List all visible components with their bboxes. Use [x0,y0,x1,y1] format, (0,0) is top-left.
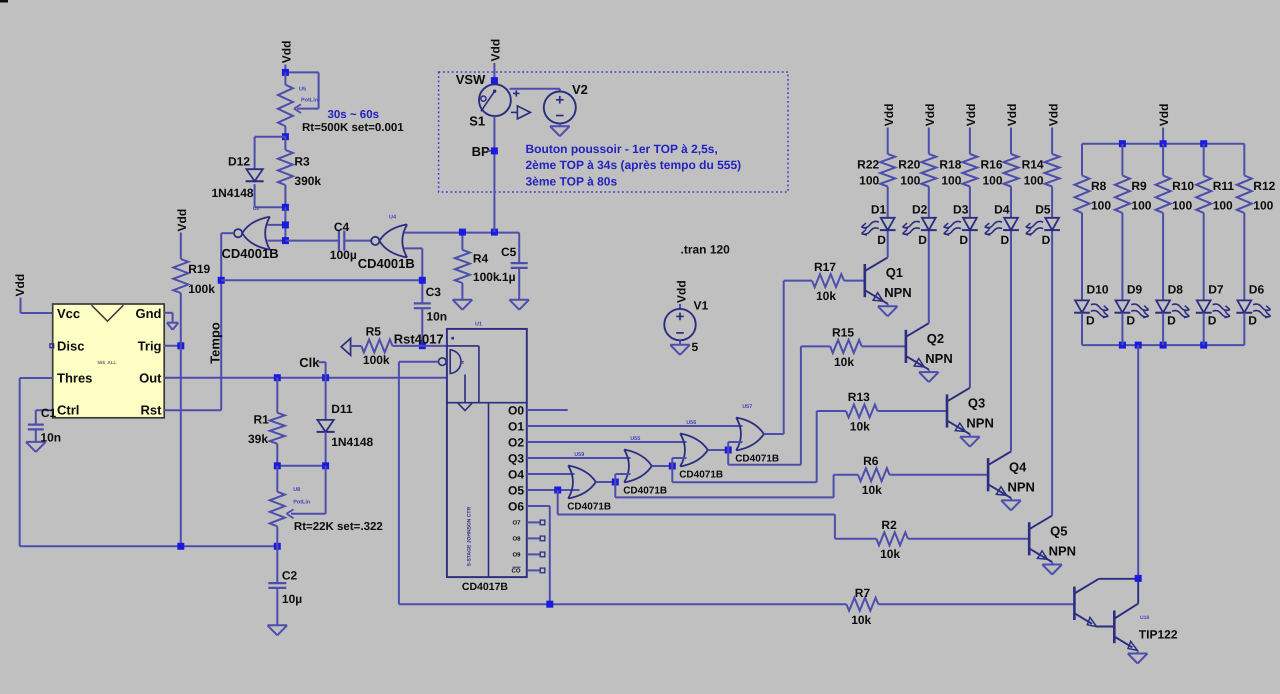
wire (feedback to C3) [221,279,422,281]
node [177,342,184,349]
label D (D2) [918,233,927,247]
wire [1010,187,1012,218]
wire [1121,213,1123,301]
label 555_ALL [98,360,117,365]
svg-text:C4: C4 [334,220,350,234]
label CD4017B [462,581,509,593]
wire (INH to R7 net) [399,362,439,604]
svg-text:C1: C1 [41,406,57,420]
node [177,543,184,550]
ground [550,126,570,136]
label R3 [294,155,310,169]
svg-text:R2: R2 [881,518,897,532]
svg-text:D: D [959,233,968,247]
label 100 (R11) [1213,199,1233,213]
wire (pot wiper) [291,466,326,514]
node [491,77,498,84]
capacitor C1 [28,425,44,430]
wire O4 [527,473,575,475]
unconnected pin Disc [50,344,54,348]
svg-text:Rst: Rst [141,403,163,418]
label NPN (Q3) [966,416,993,431]
wire (Q3 feed) [672,411,846,482]
LED D6 [1236,300,1271,319]
resistor R13 [846,405,878,418]
ground [268,625,288,635]
svg-text:100k: 100k [473,270,500,284]
svg-text:R12: R12 [1253,179,1275,193]
wire [887,187,889,218]
wire [344,240,371,242]
label D (D8) [1167,314,1176,328]
label R1 [254,413,270,427]
svg-text:Vdd: Vdd [923,104,937,127]
LED D7 [1196,300,1231,319]
label CD4001B [222,246,279,261]
label C5 [501,245,517,259]
pin Trig [138,339,162,354]
svg-text:Trig: Trig [138,339,162,354]
svg-text:Clk: Clk [299,355,320,370]
LED D4 [984,218,1019,237]
label R11 [1213,179,1235,193]
label 100k [473,270,500,284]
wire (gate2 input B) [404,248,422,303]
wire [1162,213,1164,301]
wire [1203,144,1205,176]
label U4 [389,215,397,221]
resistor R19 [173,259,188,546]
svg-text:R14: R14 [1022,158,1044,172]
svg-text:R13: R13 [848,390,870,404]
wire [285,240,339,242]
node [669,463,676,470]
wire [679,340,681,345]
label R18 [939,158,961,172]
wire (bank2 bottom rail) [1082,344,1244,346]
svg-text:Q4: Q4 [1009,459,1027,474]
potentiometer U5 (Rt=500K) [278,72,293,136]
label 100 (R10) [1172,199,1192,213]
label D1 [871,202,887,216]
resistor R11 [1196,176,1211,213]
label R4 [473,252,489,266]
resistor R2 [876,532,908,545]
svg-text:R6: R6 [863,454,879,468]
node [1119,342,1126,349]
ground (emitter Q4) [1001,498,1021,511]
svg-text:O7: O7 [512,520,521,527]
svg-text:1N4148: 1N4148 [212,186,254,200]
transistor U18 TIP122 darlington [1074,579,1138,651]
wire (Ctrl) [36,410,53,424]
svg-text:D: D [918,233,927,247]
LED D1 [861,218,896,237]
svg-text:D12: D12 [228,155,250,169]
label D12 [228,155,250,169]
svg-text:O5: O5 [508,484,524,498]
svg-text:1N4148: 1N4148 [331,435,373,449]
svg-text:10k: 10k [816,289,836,303]
wire (Trig) [164,345,181,347]
label D (D9) [1126,314,1135,328]
wire [1081,313,1083,345]
transistor Q4 NPN [988,452,1011,498]
svg-text:Bouton poussoir - 1er TOP à 2,: Bouton poussoir - 1er TOP à 2,5s, [526,142,718,156]
or gate U56 CD4071B [680,434,708,467]
label R9 [1131,179,1147,193]
svg-text:O8: O8 [512,536,521,543]
wire [928,187,930,218]
node [1160,342,1167,349]
svg-text:O0: O0 [508,404,524,418]
wire (Q2 feed) [728,346,830,464]
wire (S1 to BP) [493,116,495,232]
label R6 [863,454,879,468]
svg-text:100: 100 [1172,199,1192,213]
svg-text:CO: CO [512,568,521,575]
label U2 [253,206,260,212]
wire (555 Out / Clk) [164,377,447,379]
svg-text:D9: D9 [1127,283,1143,297]
svg-text:U5: U5 [299,87,306,93]
wire (to U57 in B) [728,442,742,450]
label R20 [898,158,920,172]
voltage source V1 [664,309,695,340]
label 100k [188,282,215,296]
wire [421,308,423,346]
svg-text:100: 100 [982,173,1002,187]
wire (to U55 in B) [615,474,630,482]
label 10k (R15) [834,355,854,369]
wire (Q5 feed) [558,490,877,539]
wire [969,187,971,218]
wire (base Q3) [878,410,948,412]
label NPN (Q4) [1008,479,1035,494]
svg-text:U55: U55 [630,436,640,442]
wire (U56 out) [708,449,728,451]
potentiometer U5 wiper arrow [294,104,301,113]
node (pot top) [282,69,289,76]
svg-text:100: 100 [1253,199,1273,213]
wire [1243,313,1245,345]
wire (bottom rail) [20,545,278,547]
label D5 [1035,202,1051,216]
svg-text:Tempo: Tempo [208,322,223,364]
label 5 [692,340,699,354]
label D3 [953,202,969,216]
svg-text:100: 100 [859,173,879,187]
switch S1 VSW [479,84,530,119]
resistor R12 [1237,176,1252,213]
pin O8 [512,536,544,543]
resistor R7 [399,598,1075,611]
label .1u [499,270,516,284]
svg-text:D8: D8 [1168,283,1184,297]
svg-text:U59: U59 [574,452,584,458]
svg-text:100: 100 [941,173,961,187]
label U1 [475,322,482,328]
Vdd flag (V1) [675,280,689,309]
svg-text:R9: R9 [1131,179,1147,193]
label CD4071B (U57) [735,453,779,464]
label C3 [426,285,442,299]
svg-text:R8: R8 [1091,179,1107,193]
IC U1 CD4017B body [447,329,527,577]
pin label Q3 [508,452,524,466]
svg-text:O9: O9 [512,552,521,559]
svg-text:R5: R5 [366,325,382,339]
svg-text:CD4001B: CD4001B [222,246,279,261]
node [322,374,329,381]
label D11 [331,402,353,416]
label R2 [881,518,897,532]
svg-text:Out: Out [139,371,162,386]
wire (collector Q1) [887,230,889,257]
label U59 [574,452,584,458]
label 100u [330,248,357,262]
wire Q3 [527,457,631,459]
pin Out [139,371,162,386]
svg-text:O1: O1 [508,420,524,434]
Vdd flag (pot U5) [280,41,294,73]
svg-text:NPN: NPN [1008,479,1035,494]
node [546,601,553,608]
LED D5 [1025,218,1060,237]
svg-text:VSW: VSW [456,72,486,87]
node [282,221,289,228]
resistor R4 [455,232,470,296]
svg-text:3ème TOP à 80s: 3ème TOP à 80s [526,175,618,189]
text Rt=500K set=0.001 [302,122,404,134]
nor gate U4 CD4001B [371,224,407,257]
or gate U55 CD4071B [624,450,652,483]
svg-text:Ctrl: Ctrl [57,403,79,418]
ground (TIP122) [1128,652,1148,664]
wire [255,184,286,207]
svg-text:100µ: 100µ [330,248,357,262]
label 100 (R8) [1091,199,1111,213]
label D10 [1087,283,1109,297]
wire O6 [527,506,550,604]
svg-text:R11: R11 [1213,179,1235,193]
resistor R5 [351,339,447,352]
label Q5 [1050,523,1067,538]
transistor Q2 NPN [906,323,929,369]
pin Vcc [57,306,80,321]
svg-text:Thres: Thres [57,371,92,386]
label R15 [832,326,854,340]
label R22 [857,158,879,172]
svg-text:NPN: NPN [1049,543,1076,558]
svg-text:10µ: 10µ [282,592,302,606]
transistor Q1 NPN [865,257,888,303]
svg-text:5: 5 [692,340,699,354]
label 10n [40,430,61,444]
svg-text:.tran 120: .tran 120 [681,243,731,257]
svg-text:R19: R19 [188,262,210,276]
pin Ctrl [57,403,79,418]
svg-text:R10: R10 [1172,179,1194,193]
svg-text:D10: D10 [1087,283,1109,297]
svg-text:10n: 10n [426,309,447,323]
svg-text:.1µ: .1µ [499,270,516,284]
wire (Thres) [20,378,53,546]
svg-text:100: 100 [1213,199,1233,213]
pin Gnd [136,306,162,321]
resistor R15 [830,340,862,353]
svg-text:100k: 100k [188,282,215,296]
svg-text:U18: U18 [1140,615,1149,621]
port arrow (reset) [341,338,350,355]
svg-text:BP: BP [472,144,490,159]
svg-text:D3: D3 [953,202,969,216]
label 100k [363,353,390,367]
pin CO [512,567,545,574]
label U56 [686,420,696,426]
diode D12 [246,169,264,181]
label 10k (R6) [862,483,882,497]
wire [1081,213,1083,301]
svg-text:Vdd: Vdd [675,280,689,303]
ground [453,296,473,310]
label 100 (R22) [859,173,879,187]
clock gate (CD4017) [439,350,473,411]
svg-text:D: D [877,233,886,247]
svg-text:D2: D2 [912,202,928,216]
text 3eme TOP [526,175,618,189]
capacitor C4 [339,231,344,251]
pin label O2 [508,436,524,450]
pin O9 [512,552,544,559]
label 1N4148 [331,435,373,449]
node [282,204,289,211]
wire (base Q1) [844,280,865,282]
label R14 [1022,158,1044,172]
wire [1121,313,1123,345]
pin Rst [141,403,163,418]
node [1160,140,1167,147]
dashed comment box [439,72,788,192]
label D (D10) [1086,314,1095,328]
ground (emitter Q1) [878,304,898,317]
directive .tran 120 [681,243,731,257]
resistor R6 [858,468,890,481]
resistor R17 [812,274,844,287]
label D (D4) [1001,233,1010,247]
wire (Gnd pin) [164,313,172,323]
ground (emitter Q2) [919,370,939,383]
label R16 [980,158,1002,172]
Vdd flag (D4) [1005,104,1019,154]
label 10n [426,309,447,323]
label 100 (R12) [1253,199,1273,213]
label Q3 [968,396,985,411]
svg-text:Vdd: Vdd [280,41,294,64]
resistor R1 [270,378,285,466]
wire (base Q5) [908,538,1029,540]
svg-text:O6: O6 [508,500,524,514]
node [1135,342,1142,349]
svg-text:390k: 390k [294,174,321,188]
label S1 [469,114,485,129]
label C1 [41,406,57,420]
label 39k [248,432,268,446]
node [725,447,732,454]
transistor Q5 NPN [1029,516,1052,562]
node [1200,140,1207,147]
svg-text:R7: R7 [855,586,871,600]
label D (D5) [1042,233,1051,247]
svg-text:10k: 10k [834,355,854,369]
svg-text:Vdd: Vdd [489,39,503,62]
label 10k (R7) [851,613,871,627]
wire [35,429,37,442]
svg-text:D: D [1001,233,1010,247]
label R19 [188,262,210,276]
ground [670,345,690,355]
label D4 [994,202,1010,216]
net label BP [472,144,495,159]
Vdd flag (D2) [923,104,937,154]
label U5 [299,87,319,104]
wire [1081,144,1083,176]
or gate U59 CD4071B [568,466,596,499]
pin label O5 [508,484,524,498]
net label Rst4017 [394,332,444,347]
Vdd flag (R19) [175,209,189,259]
wire (to U56 in B) [672,458,686,466]
node [274,374,281,381]
label U18 [1140,615,1149,621]
wire (Q4 feed) [615,475,858,498]
wire O2 [527,441,687,443]
or gate U57 CD4071B [736,418,764,451]
wire (bank2 top rail) [1082,143,1244,145]
wire [1203,213,1205,301]
svg-text:100k: 100k [363,353,390,367]
label R10 [1172,179,1194,193]
label 100 (R18) [941,173,961,187]
svg-text:D: D [1167,314,1176,328]
node BP [491,147,498,154]
label CD4071B (U56) [679,469,723,480]
wire [277,465,325,467]
svg-text:2ème TOP à 34s (après tempo du: 2ème TOP à 34s (après tempo du 555) [526,158,742,172]
LED D10 [1074,300,1109,319]
capacitor C3 [414,303,431,308]
wire [1121,144,1123,176]
wire (U59 out) [596,481,615,483]
label VSW [456,72,486,87]
wire [559,124,561,127]
label 1N4148 [212,186,254,200]
label TIP122 [1139,628,1178,642]
wire O5 [527,489,580,491]
label Q1 [886,265,903,280]
svg-text:555_ALL: 555_ALL [98,360,117,365]
svg-text:CD4071B: CD4071B [735,453,779,464]
svg-text:C3: C3 [426,285,442,299]
svg-text:D: D [1208,314,1217,328]
ground (555) [167,323,178,330]
nor gate U2 CD4001B [234,217,270,250]
svg-text:Disc: Disc [57,339,84,354]
wire (bank2 to TIP122) [1137,345,1139,578]
svg-text:TIP122: TIP122 [1139,628,1178,642]
svg-text:U57: U57 [742,404,752,410]
svg-text:39k: 39k [248,432,268,446]
